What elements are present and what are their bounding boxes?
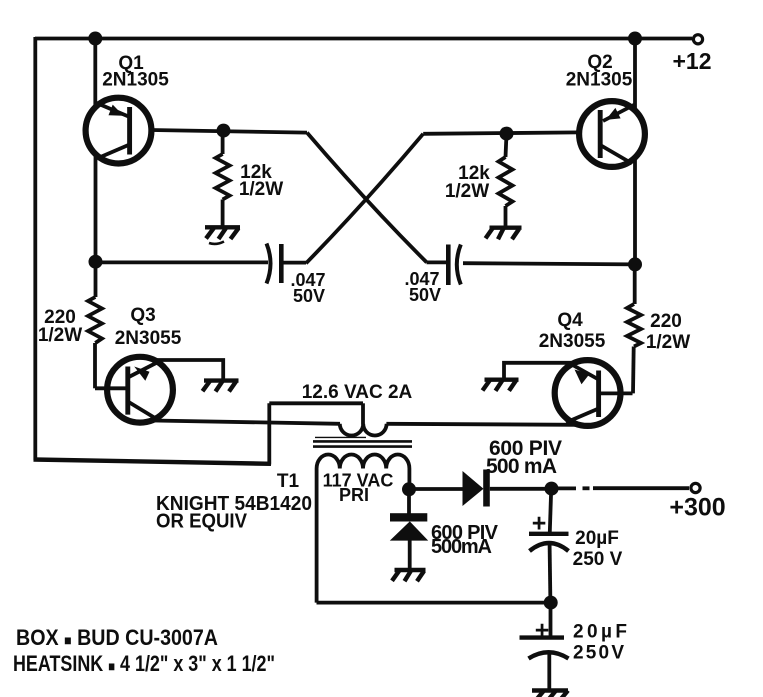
- node bottom rail junction: [544, 596, 558, 610]
- wire Q3 collector to transformer: [153, 421, 340, 424]
- wire left cap link: [282, 261, 306, 265]
- node Q2 emitter junction: [628, 32, 642, 46]
- wire cross diagonal Q2-base to left cap: [306, 134, 423, 263]
- transistor Q3: [107, 357, 173, 423]
- wire shunt diode to ground: [408, 541, 412, 570]
- wire Q1 collector to left cap: [96, 260, 268, 264]
- node output junction: [545, 482, 559, 496]
- ground under 12k right: [486, 228, 522, 240]
- svg-text:HEATSINK ■ 4 1/2" x 3" x 1 1/2: HEATSINK ■ 4 1/2" x 3" x 1 1/2": [13, 651, 275, 676]
- diode shunt 600PIV: [390, 513, 428, 540]
- wire center-tap horizontal: [269, 401, 363, 405]
- capacitor left .047: [267, 244, 282, 284]
- wire Q3 base lead: [95, 386, 128, 390]
- wire diode to output node: [490, 487, 552, 491]
- svg-text:OR EQUIV: OR EQUIV: [156, 510, 247, 533]
- svg-text:+300: +300: [669, 494, 725, 522]
- wire Q1 collector drop: [94, 156, 98, 262]
- ground left of Q4: [483, 380, 519, 391]
- svg-text:2N3055: 2N3055: [539, 331, 606, 352]
- wire cross diagonal Q1-base to right cap: [307, 133, 427, 263]
- wire output to +300 terminal: [558, 486, 689, 490]
- transistor Q1: [86, 98, 152, 164]
- wire capacitor2 stem: [549, 603, 553, 636]
- wire center-tap drop: [361, 403, 365, 424]
- wire Q2 emitter drop: [633, 39, 637, 111]
- svg-text:220: 220: [650, 311, 682, 332]
- capacitor 20uF lower: [520, 638, 569, 659]
- transformer core: [313, 437, 412, 446]
- svg-text:+: +: [535, 617, 550, 645]
- svg-text:250 V: 250 V: [573, 549, 623, 570]
- wire right cap link: [427, 260, 448, 264]
- node Q1 base / 12k junction: [217, 124, 231, 138]
- node rectifier input junction: [402, 482, 416, 496]
- svg-text:1/2W: 1/2W: [646, 332, 690, 353]
- wire Q4 collector to transformer: [386, 424, 577, 425]
- svg-text:2N1305: 2N1305: [566, 70, 633, 91]
- wire Q1 base row: [151, 130, 307, 133]
- capacitor 20uF upper: [529, 534, 569, 551]
- svg-text:Q4: Q4: [557, 310, 583, 331]
- svg-text:T1: T1: [277, 471, 300, 492]
- wire Q2 collector drop: [633, 160, 637, 264]
- node Q1 emitter junction: [88, 32, 102, 46]
- wire left rail: [33, 37, 37, 460]
- ground under lower capacitor: [532, 691, 568, 697]
- svg-text:2N1305: 2N1305: [102, 70, 169, 91]
- svg-text:1/2W: 1/2W: [445, 181, 489, 202]
- wire capacitor2 to ground: [547, 652, 551, 690]
- diode series 600PIV: [463, 470, 490, 507]
- transistor Q2: [579, 101, 645, 167]
- transistor Q4: [555, 360, 621, 426]
- svg-text:Q3: Q3: [130, 305, 155, 326]
- resistor 12k right: [499, 134, 513, 226]
- wire Q1 emitter drop: [93, 39, 97, 109]
- wire capacitor1 to bottom rail: [548, 545, 553, 603]
- capacitor right .047: [448, 245, 461, 286]
- wire Q4 base lead: [599, 391, 633, 395]
- wire right cap to Q2 collector: [463, 263, 635, 264]
- svg-text:20µF: 20µF: [575, 528, 619, 549]
- wire bottom-left return: [34, 460, 272, 464]
- svg-text:50V: 50V: [293, 286, 325, 306]
- svg-text:BOX ■ BUD CU-3007A: BOX ■ BUD CU-3007A: [16, 625, 218, 650]
- wire Q3 emitter to ground: [154, 360, 223, 380]
- node Q2 collector junction: [628, 257, 642, 271]
- svg-text:500 mA: 500 mA: [486, 455, 557, 478]
- wire capacitor1 stem: [550, 489, 551, 532]
- node Q2 base / 12k junction: [500, 127, 514, 141]
- ground under shunt diode: [392, 570, 426, 581]
- resistor 220 left: [88, 262, 102, 388]
- svg-text:2N3055: 2N3055: [115, 328, 182, 349]
- wire Q4 emitter to ground: [504, 363, 571, 379]
- svg-text:+12: +12: [672, 48, 711, 74]
- wire shunt diode stem: [407, 489, 411, 514]
- svg-text:500mA: 500mA: [431, 536, 492, 558]
- wire Q2 base row: [423, 132, 579, 133]
- resistor 220 right: [627, 264, 641, 393]
- ground right of Q3: [203, 381, 239, 392]
- svg-text:12.6 VAC 2A: 12.6 VAC 2A: [302, 382, 413, 403]
- node Q1 collector junction: [89, 255, 103, 269]
- wire junction to series diode: [409, 487, 463, 491]
- transformer T1 secondary winding: [340, 424, 387, 436]
- svg-text:+: +: [532, 510, 547, 538]
- resistor 12k left: [216, 131, 230, 226]
- svg-text:1/2W: 1/2W: [38, 325, 82, 346]
- wire top +12 rail: [35, 37, 692, 41]
- svg-text:PRI: PRI: [339, 485, 369, 505]
- terminal +300: [691, 483, 700, 492]
- terminal +12: [693, 35, 702, 44]
- svg-text:50V: 50V: [409, 285, 441, 305]
- svg-text:250V: 250V: [573, 643, 624, 664]
- svg-text:1/2W: 1/2W: [239, 179, 283, 200]
- wire center-tap riser: [267, 403, 271, 464]
- ground under 12k left: [205, 227, 240, 244]
- wire bottom rail of primary box: [317, 601, 551, 605]
- transformer T1 primary winding and left leg: [317, 455, 410, 603]
